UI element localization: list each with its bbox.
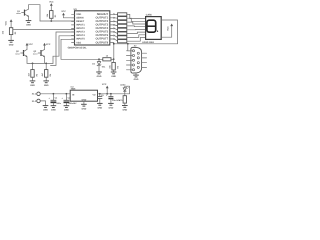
wire display common anode VCC stub — [161, 26, 172, 37]
svg-text:GND: GND — [111, 75, 116, 78]
wire serial net horizontal — [61, 58, 114, 60]
ground below X1-2 — [43, 106, 49, 112]
svg-text:GND: GND — [109, 107, 114, 110]
svg-text:VCC: VCC — [102, 83, 107, 86]
display LED1 digit eight — [147, 20, 158, 32]
wire Q2 emitter rail — [27, 57, 53, 64]
capacitor C5 — [97, 94, 104, 104]
wire display common anode top loop — [161, 20, 177, 44]
svg-text:100u: 100u — [56, 102, 61, 105]
svg-text:VCC: VCC — [49, 1, 54, 4]
svg-text:GNDPCM-16 DIL: GNDPCM-16 DIL — [68, 46, 87, 49]
connector X1-2 — [32, 99, 41, 103]
junction long net at vertical — [113, 43, 115, 45]
resistor R6 — [109, 59, 120, 72]
capacitor C6 polarized — [106, 94, 121, 104]
power VCC above Q2 — [26, 43, 34, 50]
IC U1 left pin names — [76, 13, 85, 44]
IC U1 right pin junction circles — [113, 14, 114, 40]
ground below regulator — [81, 104, 87, 110]
capacitor C1 polarized — [49, 94, 62, 106]
connector X1-1 — [32, 92, 41, 96]
ground below C6 — [108, 103, 114, 109]
wire Q3 emitter drop — [44, 57, 46, 64]
connector X2 left pin stubs — [126, 51, 132, 70]
resistor R17 — [118, 36, 127, 39]
svg-text:OUTPUT1: OUTPUT1 — [95, 17, 108, 20]
IC U1 right pin stubs — [110, 14, 113, 42]
power VCC output rail — [102, 83, 109, 94]
wire regulator ground lead — [83, 101, 85, 104]
ground below R6 — [111, 72, 117, 78]
svg-text:VCC: VCC — [166, 26, 169, 31]
resistor R15 — [118, 28, 127, 31]
resistor R2 — [1, 28, 17, 35]
ground below C1 — [51, 106, 57, 112]
svg-text:VCC: VCC — [46, 43, 51, 46]
junction output rail at VCC — [106, 93, 108, 95]
transistor Q1 — [16, 9, 28, 16]
resistor R1 — [46, 11, 57, 21]
resistor R12 — [118, 17, 127, 20]
resistor R5 horizontal — [103, 54, 111, 61]
IC U1 right pin names — [95, 13, 108, 44]
svg-text:GND: GND — [97, 75, 102, 78]
wire node A to IC pin RESET — [40, 20, 75, 22]
connector X2 right pin circles — [137, 52, 139, 68]
svg-text:LED2: LED2 — [120, 84, 126, 87]
svg-text:7805: 7805 — [71, 88, 77, 91]
svg-text:VSS: VSS — [76, 41, 81, 44]
svg-text:VCC: VCC — [28, 43, 33, 46]
connector X2 left pin circles — [132, 50, 134, 71]
wire R2 node to IC pin 5 — [13, 28, 75, 30]
resistor R11 — [118, 13, 127, 16]
resistor R13 — [118, 21, 127, 24]
junction long net at DB9 branch — [127, 43, 129, 45]
capacitor C2 polarized — [62, 94, 78, 106]
ground below R2 — [8, 35, 14, 47]
wire long net IC pin9 down — [112, 43, 115, 60]
resistor R14 — [118, 24, 127, 27]
junction serial net at D2 — [98, 58, 100, 60]
junction emitter rail at R3 — [32, 63, 34, 65]
svg-text:OUTPUT5: OUTPUT5 — [95, 31, 108, 34]
svg-text:GND: GND — [26, 24, 31, 27]
svg-text:GND: GND — [97, 107, 102, 110]
wire long net horizontal to display loop — [114, 43, 178, 45]
regulator IC2 7805 — [70, 86, 97, 102]
svg-text:GND: GND — [134, 78, 139, 81]
junction serial net at R6 — [113, 58, 115, 60]
junction output rail at C6 — [110, 93, 112, 95]
svg-text:VO: VO — [92, 94, 95, 97]
wire LED branch — [125, 86, 130, 94]
ground below C2 — [64, 106, 70, 112]
wire IC pin 8 to bottom net — [61, 39, 75, 59]
ground below Q1 emitter — [26, 17, 32, 27]
ground below R4 — [43, 77, 49, 87]
svg-text:INPUT5: INPUT5 — [76, 38, 85, 41]
transistor Q2 — [15, 49, 27, 57]
svg-text:VCC: VCC — [5, 20, 8, 25]
junction emitter rail at R4 — [45, 63, 47, 65]
wire branch down to DB9 pin 1 — [128, 44, 131, 51]
resistor R3 — [27, 63, 38, 77]
svg-text:GND: GND — [44, 84, 49, 87]
resistor R7 — [119, 96, 126, 103]
wires resistor network to display pins — [127, 14, 146, 41]
svg-text:VCC: VCC — [61, 10, 66, 13]
resistor R16 — [118, 32, 127, 35]
wire IC pin 7 nested corner — [53, 36, 75, 64]
junction node A — [50, 20, 52, 22]
ground below X2 — [133, 73, 139, 81]
svg-text:INPUT3: INPUT3 — [76, 31, 85, 34]
ground below R3 — [30, 77, 36, 87]
power VCC above Q3 — [43, 43, 51, 50]
wire VCC to IC pin 2 — [64, 17, 75, 19]
LED D3 — [120, 84, 129, 92]
connector X2 DB9 shell — [131, 47, 142, 73]
wire Q1 collector to node A — [29, 5, 41, 21]
ground below D2 — [96, 72, 102, 78]
svg-text:OUTPUT7: OUTPUT7 — [95, 38, 108, 41]
wire IC pin 6 to emitter area — [51, 32, 75, 65]
transistor Q3 — [33, 49, 45, 57]
svg-text:GND: GND — [122, 109, 127, 112]
ground below R7 — [122, 103, 128, 111]
wire LED to R7 — [124, 91, 126, 96]
zener diode D2 — [92, 59, 106, 72]
svg-text:GND: GND — [51, 109, 56, 112]
svg-text:GND: GND — [9, 43, 14, 46]
svg-text:GND: GND — [82, 107, 87, 110]
power VCC above R1 — [49, 1, 54, 11]
ground below C5 — [97, 103, 103, 109]
IC U1 body — [75, 11, 110, 45]
junction input rail at C2 — [66, 93, 68, 95]
wire X1-1 to regulator input — [40, 93, 70, 95]
resistor R18 — [118, 40, 127, 43]
connector X2 right pin stubs — [142, 53, 147, 67]
IC U1 left pin stubs — [72, 14, 75, 42]
power VCC to IC VDD — [61, 10, 66, 18]
wire X1-2 to ground — [40, 101, 45, 106]
wire regulator output rail — [98, 93, 130, 95]
resistor R4 — [41, 63, 52, 77]
svg-text:GND: GND — [43, 109, 48, 112]
power VCC display common — [166, 24, 173, 31]
svg-text:GND: GND — [30, 84, 35, 87]
junction output rail at C5 — [99, 93, 101, 95]
svg-text:100u16V: 100u16V — [68, 102, 77, 105]
junction input rail at C1 — [53, 93, 55, 95]
svg-text:OUTPUT8: OUTPUT8 — [95, 41, 108, 44]
display LED1 body — [146, 17, 162, 40]
wires IC outputs to resistor network — [115, 14, 118, 41]
svg-text:CA56: CA56 — [146, 14, 153, 17]
svg-text:GND: GND — [64, 109, 69, 112]
power VCC above R2 — [5, 19, 13, 27]
svg-text:SERIN: SERIN — [76, 17, 84, 20]
